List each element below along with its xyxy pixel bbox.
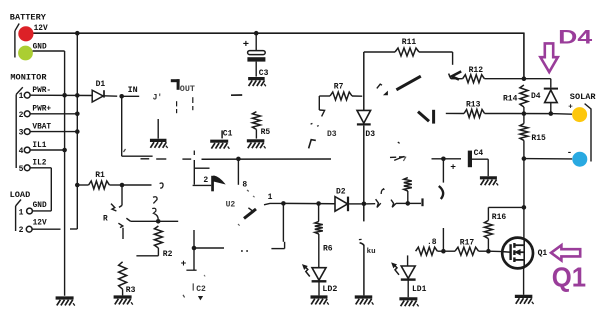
svg-text:+: + — [568, 104, 573, 112]
svg-text:2: 2 — [19, 111, 24, 120]
svg-text:R1: R1 — [95, 171, 105, 180]
svg-text:PWR-: PWR- — [32, 87, 51, 95]
svg-text:LD2: LD2 — [322, 285, 337, 294]
svg-text:D4: D4 — [558, 27, 592, 49]
svg-text:2: 2 — [203, 176, 208, 185]
svg-text:OUT: OUT — [180, 84, 195, 94]
svg-text:-: - — [567, 148, 572, 158]
svg-text:IL1: IL1 — [32, 142, 46, 150]
svg-text:1: 1 — [268, 193, 273, 202]
svg-text:ku: ku — [367, 248, 376, 256]
svg-text:D3: D3 — [365, 130, 375, 139]
svg-text:R16: R16 — [492, 213, 507, 222]
svg-text:1: 1 — [19, 208, 24, 217]
svg-text:C3: C3 — [259, 69, 269, 78]
svg-text:R3: R3 — [126, 286, 136, 295]
svg-text:D2: D2 — [336, 187, 346, 196]
svg-text:R7: R7 — [334, 82, 344, 91]
svg-text:4: 4 — [19, 147, 24, 156]
svg-text:R14: R14 — [503, 95, 518, 104]
svg-text:R2: R2 — [163, 250, 173, 259]
svg-text:LD1: LD1 — [412, 285, 427, 294]
svg-text:IN: IN — [128, 85, 138, 95]
svg-text:R17: R17 — [460, 238, 475, 247]
svg-text:R5: R5 — [261, 128, 271, 137]
svg-text:GND: GND — [33, 43, 47, 51]
svg-text:2: 2 — [19, 226, 24, 235]
svg-text:U2: U2 — [226, 200, 236, 209]
svg-text:GND: GND — [33, 202, 47, 210]
svg-text:12V: 12V — [34, 25, 48, 33]
svg-text:12V: 12V — [33, 220, 47, 228]
svg-text:R6: R6 — [323, 244, 333, 253]
svg-text:IL2: IL2 — [32, 160, 46, 168]
svg-text:5: 5 — [19, 165, 24, 174]
svg-text:R15: R15 — [531, 134, 546, 143]
svg-text:3: 3 — [19, 129, 24, 138]
svg-text:.8: .8 — [427, 238, 437, 247]
svg-text:J': J' — [153, 94, 163, 103]
svg-text:1: 1 — [19, 92, 24, 101]
svg-text:LOAD: LOAD — [10, 190, 31, 200]
svg-text:VBAT: VBAT — [32, 123, 51, 131]
svg-text:C1: C1 — [223, 129, 233, 138]
svg-text:MONITOR: MONITOR — [10, 73, 47, 83]
svg-text:+: + — [181, 258, 187, 269]
svg-text:BATTERY: BATTERY — [10, 13, 47, 23]
svg-text:8: 8 — [242, 180, 247, 189]
svg-text:Q1: Q1 — [538, 249, 548, 258]
svg-text:+: + — [450, 161, 456, 172]
svg-text:C2: C2 — [196, 285, 206, 294]
svg-text:Q1: Q1 — [552, 261, 586, 292]
svg-text:C4: C4 — [474, 149, 484, 158]
svg-text:R11: R11 — [402, 38, 417, 47]
svg-text:PWR+: PWR+ — [32, 106, 51, 114]
svg-text:D3: D3 — [327, 130, 337, 139]
svg-text:R13: R13 — [466, 101, 481, 110]
svg-text:SOLAR: SOLAR — [570, 92, 597, 102]
svg-text:+: + — [243, 39, 249, 51]
svg-text:R: R — [103, 216, 108, 224]
svg-text:D4: D4 — [531, 92, 541, 101]
svg-text:D1: D1 — [96, 80, 106, 89]
